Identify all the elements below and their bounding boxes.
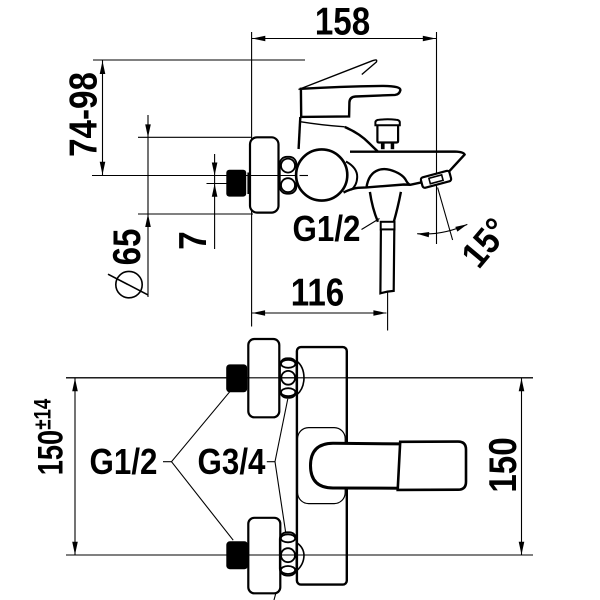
svg-text:150: 150 xyxy=(481,437,525,492)
svg-text:116: 116 xyxy=(291,270,344,314)
svg-text:65: 65 xyxy=(105,229,149,266)
svg-text:G1/2: G1/2 xyxy=(90,442,158,483)
svg-text:7: 7 xyxy=(171,231,215,249)
svg-text:G1/2: G1/2 xyxy=(293,209,361,250)
svg-text:G3/4: G3/4 xyxy=(198,442,266,483)
svg-text:74-98: 74-98 xyxy=(61,72,105,157)
svg-text:158: 158 xyxy=(315,0,370,43)
